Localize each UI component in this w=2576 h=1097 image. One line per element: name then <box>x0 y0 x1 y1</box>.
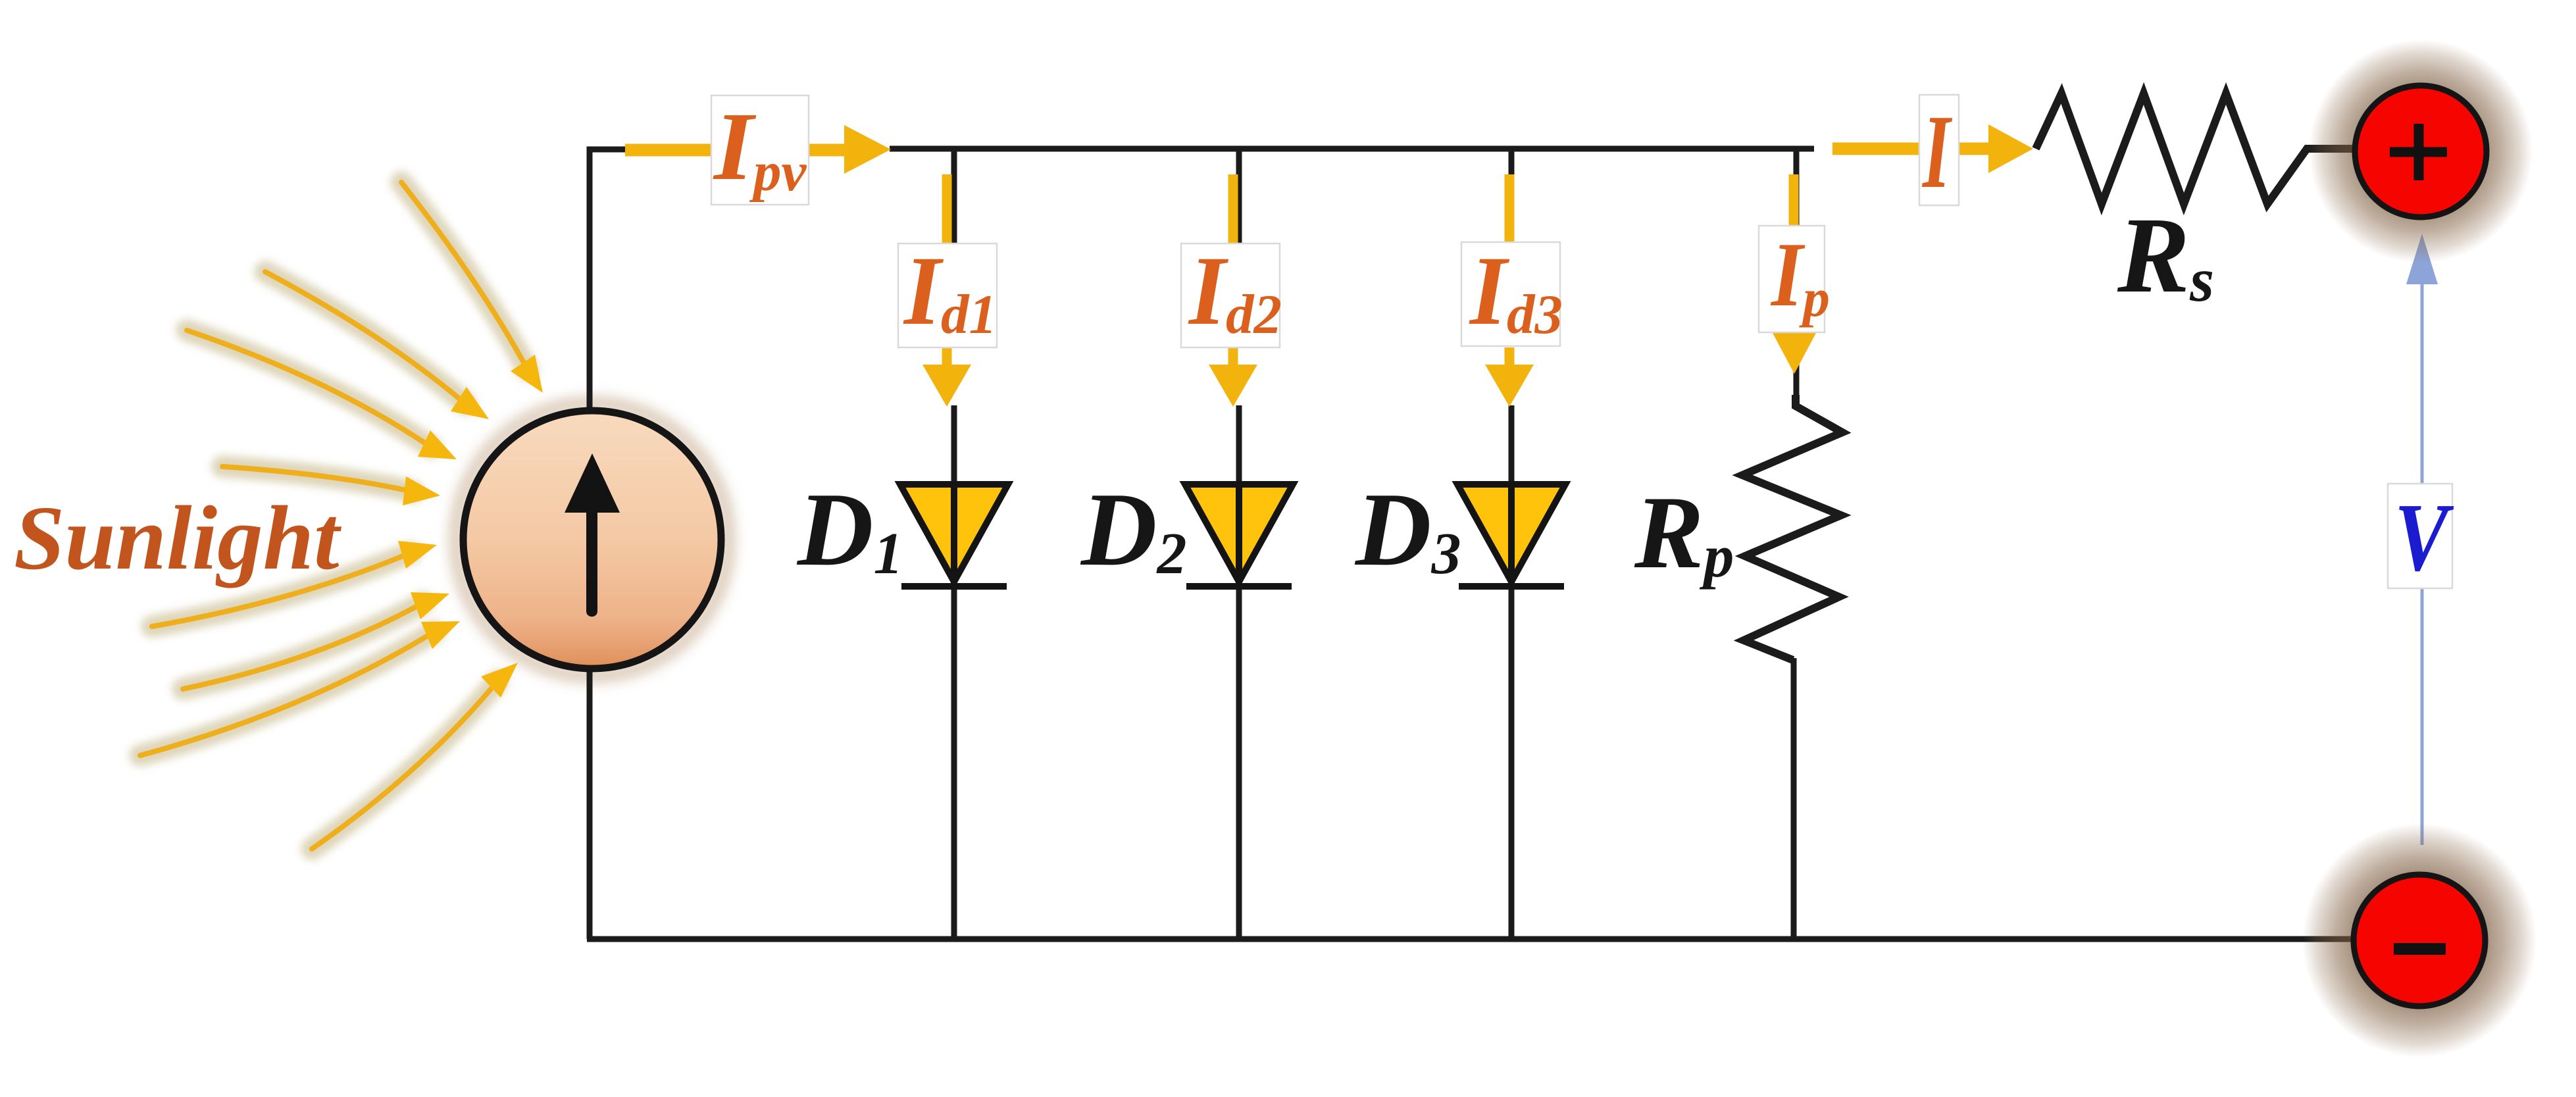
svg-text:Sunlight: Sunlight <box>14 488 342 589</box>
svg-text:D2: D2 <box>1080 471 1187 588</box>
svg-text:Rs: Rs <box>2117 195 2214 315</box>
svg-text:I: I <box>1922 93 1953 210</box>
svg-text:V: V <box>2394 484 2454 592</box>
svg-text:Rp: Rp <box>1634 475 1734 590</box>
svg-text:D1: D1 <box>796 471 903 588</box>
svg-text:D3: D3 <box>1354 471 1461 588</box>
